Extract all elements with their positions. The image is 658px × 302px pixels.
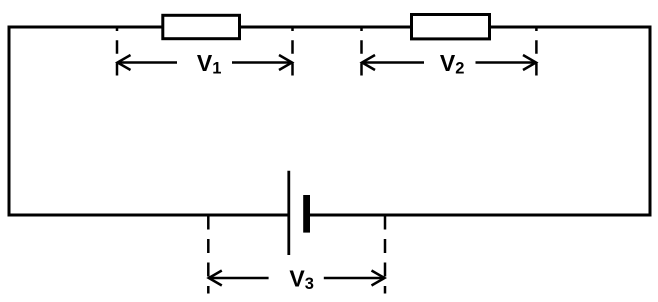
dimension arrow V1 right (points right) [232, 55, 292, 70]
dashed extent line: V1 right [291, 28, 294, 76]
dimension arrow V2 right (points right) [476, 55, 537, 70]
battery B1 negative plate (short thick bar) [303, 195, 310, 233]
svg-text:V2: V2 [440, 50, 465, 78]
dashed extent line: V2 left [360, 28, 363, 76]
dimension arrow V3 right (points right) [324, 271, 385, 286]
svg-text:V3: V3 [289, 265, 314, 293]
resistor R1 [163, 15, 240, 38]
wire: outer circuit loop (bottom-left, left, top, right, bottom-right segments) [9, 27, 650, 215]
dimension arrow V2 left (points left) [362, 55, 424, 70]
svg-text:V1: V1 [197, 50, 222, 78]
dashed extent line: V1 left [116, 28, 119, 76]
battery B1 positive plate (long thin line) [287, 171, 290, 255]
dashed extent line: V3 right [384, 216, 387, 294]
dimension arrow V3 left (points left) [209, 271, 269, 286]
dashed extent line: V3 left [207, 216, 210, 294]
dimension arrow V1 left (points left) [118, 55, 178, 70]
resistor R2 [412, 15, 490, 39]
dashed extent line: V2 right [535, 28, 538, 76]
